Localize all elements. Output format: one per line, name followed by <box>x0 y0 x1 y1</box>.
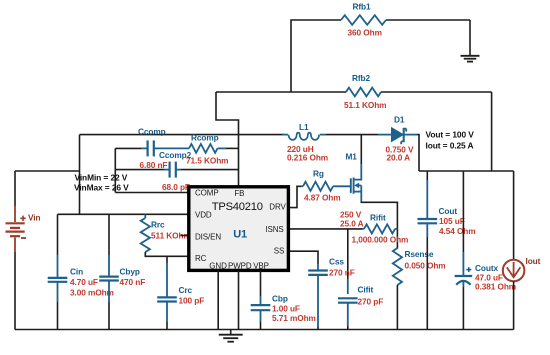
svg-text:20.0 A: 20.0 A <box>387 153 411 163</box>
svg-text:Cbyp: Cbyp <box>120 266 140 276</box>
value 0.381 Ohm <box>475 281 516 291</box>
label D1 <box>394 114 405 124</box>
label Coutx <box>475 263 498 273</box>
svg-text:DIS/EN: DIS/EN <box>195 232 221 241</box>
value 250 V (M1) <box>340 210 362 220</box>
capacitor Crc branch <box>157 256 177 329</box>
label Ccomp <box>138 126 166 136</box>
wire Css to ground rail <box>317 275 319 330</box>
label Cbyp <box>120 266 140 276</box>
svg-text:COMP: COMP <box>195 188 219 197</box>
label Css <box>329 256 344 266</box>
wire Rfb2 right drop to output rail <box>491 92 493 171</box>
minus mark for Vin <box>21 237 26 239</box>
value 220 uH <box>287 144 314 154</box>
svg-text:Rg: Rg <box>313 168 324 178</box>
label Iout = 0.25 A <box>426 140 474 150</box>
svg-text:4.87 Ohm: 4.87 Ohm <box>304 192 341 202</box>
capacitor Cout branch <box>418 171 438 330</box>
label Rg <box>313 168 324 178</box>
wire M1 source down and over to sense node <box>361 202 397 249</box>
wire Rfb2 line y=92 with step down to FB pin <box>216 92 492 186</box>
svg-text:ISNS: ISNS <box>265 225 283 234</box>
svg-text:Iout = 0.25 A: Iout = 0.25 A <box>426 140 474 150</box>
voltage source Vin (battery) <box>6 171 25 330</box>
svg-text:Css: Css <box>329 256 344 266</box>
label Cin <box>70 266 83 276</box>
value 470 nF <box>120 277 146 287</box>
wire DRV pin to Rg <box>289 186 301 207</box>
svg-text:RC: RC <box>195 254 207 263</box>
label Rcomp <box>191 132 219 142</box>
svg-text:Rrc: Rrc <box>151 220 165 230</box>
value 20.0 A <box>387 153 411 163</box>
value 5.71 mOhm <box>272 313 316 323</box>
wire Cifit to ground rail <box>347 303 349 330</box>
wire COMP pin to compensation network <box>115 148 188 192</box>
svg-text:68.0 pF: 68.0 pF <box>162 182 190 192</box>
pin label ISNS <box>265 225 283 234</box>
wire DIS/EN stub <box>181 235 189 237</box>
label U1 <box>233 228 247 240</box>
value 105 uF <box>439 216 465 226</box>
current source Iout <box>503 171 525 330</box>
value 4.87 Ohm <box>304 192 341 202</box>
pin label GND <box>209 262 227 271</box>
svg-text:105 uF: 105 uF <box>439 216 465 226</box>
label Rfb1 <box>353 1 372 11</box>
svg-text:5.71 mOhm: 5.71 mOhm <box>272 313 316 323</box>
wire Cbp to rail <box>260 310 262 329</box>
value 0.050 Ohm <box>405 260 446 270</box>
svg-text:Vout = 100 V: Vout = 100 V <box>426 130 475 140</box>
label Rrc <box>151 220 165 230</box>
svg-text:DRV: DRV <box>269 202 286 211</box>
svg-text:U1: U1 <box>233 228 247 240</box>
value 0.750 V <box>386 145 414 155</box>
svg-text:GND: GND <box>209 262 227 271</box>
resistor Rsense <box>393 248 402 285</box>
label Rsense <box>405 249 434 259</box>
svg-text:TPS40210: TPS40210 <box>212 201 263 213</box>
label L1 <box>299 122 309 132</box>
svg-text:6.80 nF: 6.80 nF <box>140 160 168 170</box>
wire VBP pin to Cbp <box>260 271 262 306</box>
pin label DIS/EN <box>195 232 221 241</box>
value 3.00 mOhm <box>70 287 114 297</box>
svg-text:25.0 A: 25.0 A <box>340 218 364 228</box>
wire output rail y=171 <box>419 170 514 172</box>
label VinMax = 26 V <box>74 182 129 192</box>
svg-text:Ccomp: Ccomp <box>138 126 166 136</box>
inductor L1 <box>282 133 326 140</box>
svg-text:Rfb1: Rfb1 <box>353 1 372 11</box>
svg-text:Vin: Vin <box>28 212 40 222</box>
ground (top right) <box>461 56 480 62</box>
capacitor Coutx (polarized) branch <box>455 171 473 330</box>
svg-text:Crc: Crc <box>179 285 193 295</box>
label Cbp <box>272 293 288 303</box>
capacitor Cin branch <box>48 214 68 329</box>
label Vout = 100 V <box>426 130 475 140</box>
wire bottom ground rail <box>15 329 514 331</box>
svg-text:270 nF: 270 nF <box>329 268 355 278</box>
capacitor Cifit <box>338 298 358 302</box>
resistor Rfb2 <box>346 88 381 97</box>
value 0.216 Ohm <box>287 153 328 163</box>
svg-text:71.5 KOhm: 71.5 KOhm <box>186 155 228 165</box>
wire GND pin to rail <box>217 271 219 330</box>
resistor Rrc branch <box>141 214 189 256</box>
svg-text:4.54 Ohm: 4.54 Ohm <box>439 226 476 236</box>
capacitor Ccomp <box>115 140 158 156</box>
svg-text:360 Ohm: 360 Ohm <box>348 28 382 38</box>
resistor Rcomp <box>158 144 239 153</box>
value 25.0 A (M1) <box>340 218 364 228</box>
value 4.70 uF <box>70 277 98 287</box>
value 47.0 uF <box>475 272 503 282</box>
wire battery top connection y=171 <box>15 170 80 172</box>
value 51.1 KOhm <box>344 100 386 110</box>
svg-text:VinMax = 26 V: VinMax = 26 V <box>74 182 129 192</box>
value 71.5 KOhm <box>186 155 228 165</box>
diode D1 (schottky) <box>378 128 417 145</box>
wire M1 drain from switch node <box>360 135 362 177</box>
pin label VBP <box>253 262 269 271</box>
svg-text:Rsense: Rsense <box>405 249 434 259</box>
capacitor Ccomp2 branch <box>115 162 238 178</box>
resistor Rifit <box>362 224 397 233</box>
transistor M1 (N-MOSFET) <box>351 177 362 202</box>
capacitor Css <box>308 264 328 275</box>
pin label COMP <box>195 188 219 197</box>
value 68.0 pF <box>162 182 190 192</box>
label Vin <box>28 212 40 222</box>
svg-text:SS: SS <box>274 246 284 255</box>
svg-text:PWPD: PWPD <box>228 262 252 271</box>
wire VDD rail y=214.3 <box>58 213 189 215</box>
svg-text:3.00 mOhm: 3.00 mOhm <box>70 287 114 297</box>
svg-text:1.00 uF: 1.00 uF <box>272 303 300 313</box>
resistor Rg <box>301 182 351 191</box>
svg-text:VBP: VBP <box>253 262 269 271</box>
svg-text:4.70 uF: 4.70 uF <box>70 277 98 287</box>
wire SS pin down to Css <box>289 251 318 264</box>
label Cout <box>439 206 458 216</box>
svg-text:VinMin = 22 V: VinMin = 22 V <box>75 173 128 183</box>
svg-text:100 pF: 100 pF <box>179 295 205 305</box>
svg-text:M1: M1 <box>346 151 358 161</box>
pin label PWPD <box>228 262 252 271</box>
wire Cifit branch from ISNS node <box>347 229 349 294</box>
svg-text:VDD: VDD <box>195 210 212 219</box>
label Iout <box>526 256 541 266</box>
wire ISNS pin to Rifit <box>289 228 362 230</box>
svg-text:Iout: Iout <box>526 256 541 266</box>
svg-text:470 nF: 470 nF <box>120 277 146 287</box>
pin label SS <box>274 246 284 255</box>
op-amp U1 TPS40210 controller box <box>189 187 289 271</box>
value 4.54 Ohm <box>439 226 476 236</box>
label Rifit <box>370 213 386 223</box>
label Rfb2 <box>352 73 371 83</box>
pin label VDD <box>195 210 212 219</box>
value 100 pF <box>179 295 205 305</box>
value 270 nF <box>329 268 355 278</box>
svg-text:L1: L1 <box>299 122 309 132</box>
wire Vin top line y=134.6 from left rail to L1 and diode <box>80 135 285 215</box>
svg-text:1,000.000 Ohm: 1,000.000 Ohm <box>352 234 409 244</box>
svg-text:Ccomp2: Ccomp2 <box>159 150 192 160</box>
value 1,000.000 Ohm <box>352 234 409 244</box>
svg-text:270 pF: 270 pF <box>358 296 384 306</box>
ground (bottom center) <box>219 330 243 342</box>
value 360 Ohm <box>348 28 382 38</box>
svg-text:FB: FB <box>234 189 244 198</box>
svg-text:Rfb2: Rfb2 <box>352 73 371 83</box>
svg-text:0.050 Ohm: 0.050 Ohm <box>405 260 446 270</box>
svg-text:Rcomp: Rcomp <box>191 132 219 142</box>
svg-text:0.381 Ohm: 0.381 Ohm <box>475 281 516 291</box>
label Crc <box>179 285 193 295</box>
capacitor Cbyp branch <box>99 214 119 329</box>
value 1.00 uF <box>272 303 300 313</box>
pin label RC <box>195 254 207 263</box>
label Cifit <box>358 284 374 294</box>
value 6.80 nF <box>140 160 168 170</box>
wire Rsense to ground rail <box>396 285 398 330</box>
wire Rfb1 branch: FB node up and across to local ground <box>291 20 470 92</box>
pin label DRV <box>269 202 286 211</box>
plus mark for Coutx <box>466 267 471 272</box>
label VinMin = 22 V <box>75 173 128 183</box>
wire L1 to D1 anode, switch node junction <box>326 134 378 136</box>
label TPS40210 <box>212 201 263 213</box>
value 511 KOhm <box>151 230 191 240</box>
wire PWPD pin to rail <box>238 271 240 330</box>
svg-text:Cout: Cout <box>439 206 458 216</box>
label Ccomp2 <box>159 150 192 160</box>
value 270 pF <box>358 296 384 306</box>
pin label FB <box>234 189 244 198</box>
svg-text:Cin: Cin <box>70 266 83 276</box>
capacitor Cbp <box>251 305 271 310</box>
wire D1 cathode to output rail corner <box>417 135 419 171</box>
svg-text:51.1 KOhm: 51.1 KOhm <box>344 100 386 110</box>
svg-text:D1: D1 <box>394 114 405 124</box>
plus mark for Vin <box>20 216 25 221</box>
resistor Rfb1 <box>341 15 386 25</box>
svg-text:Cbp: Cbp <box>272 293 288 303</box>
svg-text:Rifit: Rifit <box>370 213 386 223</box>
svg-text:Cifit: Cifit <box>358 284 374 294</box>
svg-text:0.216 Ohm: 0.216 Ohm <box>287 153 328 163</box>
label M1 <box>346 151 358 161</box>
